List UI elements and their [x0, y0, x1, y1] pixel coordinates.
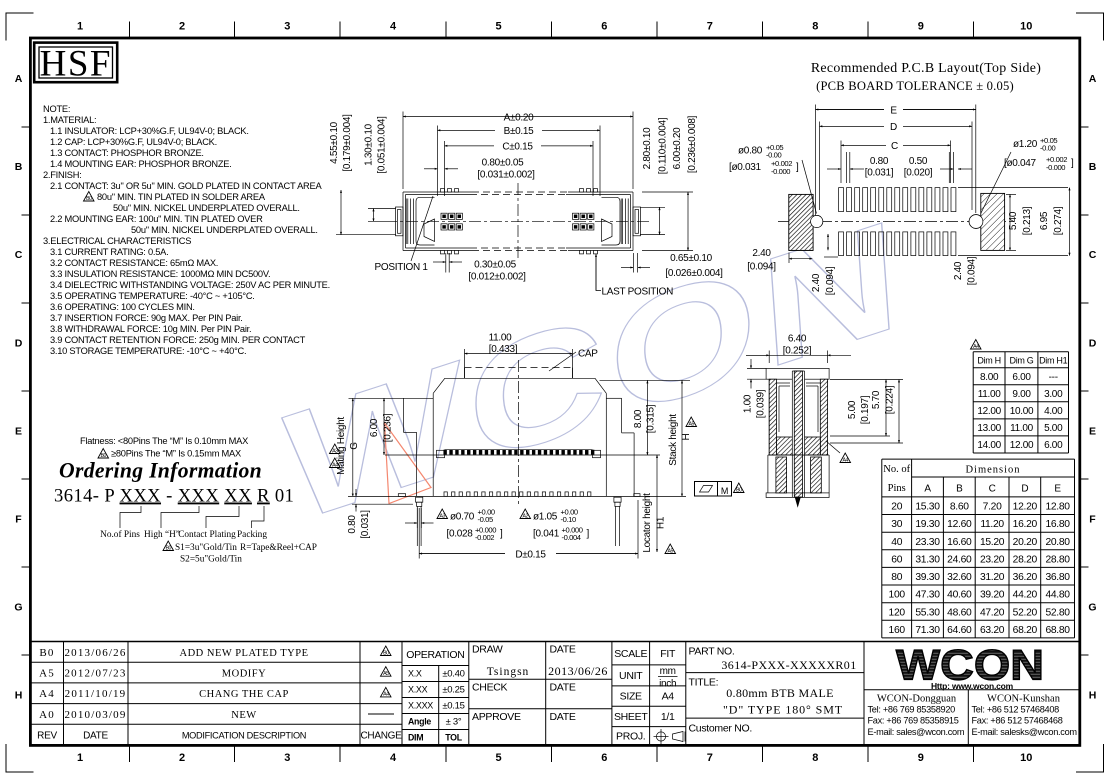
svg-text:Tel: +86 769 85358920: Tel: +86 769 85358920: [868, 705, 956, 715]
svg-text:A5: A5: [383, 671, 389, 677]
svg-text:Dim H1: Dim H1: [1039, 356, 1067, 366]
svg-text:B: B: [15, 161, 23, 173]
svg-text:B0: B0: [166, 545, 172, 551]
svg-text:6.00±0.20: 6.00±0.20: [672, 127, 683, 169]
svg-text:2.80±0.10: 2.80±0.10: [642, 127, 653, 169]
svg-text:PART NO.: PART NO.: [689, 646, 735, 658]
svg-text:2011/10/19: 2011/10/19: [65, 688, 127, 700]
svg-text:Tsingsn: Tsingsn: [487, 666, 530, 678]
svg-text:A4: A4: [662, 690, 675, 702]
svg-text:Angle: Angle: [408, 717, 431, 727]
svg-text:High “H”: High “H”: [144, 530, 180, 540]
svg-text:2.FINISH:: 2.FINISH:: [43, 170, 82, 180]
svg-text:A4: A4: [843, 457, 849, 463]
svg-text:2: 2: [179, 752, 185, 764]
svg-text:A3: A3: [440, 513, 446, 519]
svg-text:20.80: 20.80: [1045, 537, 1070, 548]
svg-text:Dim G: Dim G: [1010, 356, 1034, 366]
svg-text:11.20: 11.20: [980, 519, 1004, 530]
svg-text:3: 3: [284, 21, 290, 33]
svg-text:No. of: No. of: [883, 464, 910, 475]
svg-text:E-mail: salesks@wcon.com: E-mail: salesks@wcon.com: [972, 727, 1078, 737]
svg-text:31.30: 31.30: [915, 554, 940, 565]
svg-text:7: 7: [707, 21, 713, 33]
svg-text:32.60: 32.60: [947, 572, 972, 583]
svg-text:9.00: 9.00: [1012, 389, 1031, 400]
svg-text:[0.028: [0.028: [447, 529, 474, 540]
svg-text:[0.026±0.004]: [0.026±0.004]: [665, 268, 723, 279]
svg-text:MODIFY: MODIFY: [222, 669, 266, 680]
svg-text:D: D: [890, 122, 897, 133]
svg-text:ADD NEW PLATED TYPE: ADD NEW PLATED TYPE: [180, 648, 309, 659]
svg-text:[ø0.031: [ø0.031: [729, 162, 762, 173]
svg-text:5.00: 5.00: [1044, 423, 1063, 434]
svg-text:Recommended P.C.B Layout(Top S: Recommended P.C.B Layout(Top Side): [811, 61, 1041, 76]
svg-text:F: F: [15, 514, 22, 526]
svg-text:TOL: TOL: [445, 732, 462, 742]
svg-text:3614-PXXX-XXXXXR01: 3614-PXXX-XXXXXR01: [721, 658, 856, 672]
svg-text:2013/06/26: 2013/06/26: [64, 647, 126, 659]
svg-text:LAST POSITION: LAST POSITION: [602, 287, 674, 298]
svg-text:E: E: [15, 425, 22, 437]
svg-text:12.00: 12.00: [1010, 440, 1034, 451]
svg-text:WCON-Dongguan: WCON-Dongguan: [877, 694, 957, 705]
svg-text:B0: B0: [383, 650, 389, 656]
svg-text:[0.252]: [0.252]: [783, 345, 812, 356]
svg-text:H: H: [15, 690, 23, 702]
svg-text:3.8 WITHDRAWAL FORCE: 10g MIN: 3.8 WITHDRAWAL FORCE: 10g MIN. Per PIN P…: [50, 324, 251, 334]
svg-text:Fax: +86 512 57468468: Fax: +86 512 57468468: [972, 716, 1063, 726]
svg-text:23.20: 23.20: [980, 554, 1005, 565]
svg-text:80: 80: [891, 572, 902, 583]
svg-text:ø0.80: ø0.80: [738, 146, 763, 157]
svg-text:REV: REV: [37, 731, 57, 742]
svg-text:10.00: 10.00: [1010, 406, 1034, 417]
svg-text:-0.004: -0.004: [562, 533, 581, 542]
svg-text:20: 20: [891, 502, 902, 513]
svg-text:[0.179±0.004]: [0.179±0.004]: [342, 114, 353, 172]
svg-text:52.20: 52.20: [1013, 607, 1038, 618]
svg-text:A2: A2: [523, 513, 529, 519]
svg-text:1.1 INSULATOR: LCP+30%G.F, UL: 1.1 INSULATOR: LCP+30%G.F, UL94V-0; BLAC…: [50, 126, 249, 136]
svg-text:S1=3u"Gold/Tin: S1=3u"Gold/Tin: [175, 543, 237, 553]
svg-text:15.30: 15.30: [915, 502, 940, 513]
svg-text:A±0.20: A±0.20: [504, 112, 535, 123]
svg-text:[0.051±0.004]: [0.051±0.004]: [377, 116, 388, 174]
svg-text:1.3 CONTACT: PHOSPHOR BRONZE.: 1.3 CONTACT: PHOSPHOR BRONZE.: [50, 148, 204, 158]
svg-text:50u" MIN. NICKEL UNDERPLATED O: 50u" MIN. NICKEL UNDERPLATED OVERALL.: [113, 203, 300, 213]
svg-text:F: F: [1089, 514, 1096, 526]
svg-text:3.3 INSULATION RESISTANCE: 10: 3.3 INSULATION RESISTANCE: 1000MΩ MIN DC…: [50, 269, 270, 279]
svg-text:D±0.15: D±0.15: [515, 549, 546, 560]
svg-text:DATE: DATE: [550, 711, 576, 723]
svg-text:3.4 DIELECTRIC WITHSTANDING V: 3.4 DIELECTRIC WITHSTANDING VOLTAGE: 250…: [50, 280, 330, 290]
svg-text:±0.15: ±0.15: [442, 701, 464, 712]
svg-text:---: ---: [1049, 372, 1058, 383]
svg-text:[0.094]: [0.094]: [825, 266, 836, 295]
svg-text:[0.213]: [0.213]: [1022, 206, 1033, 235]
svg-text:7: 7: [707, 752, 713, 764]
svg-text:DRAW: DRAW: [472, 644, 503, 656]
svg-text:4: 4: [390, 752, 397, 764]
svg-text:11.00: 11.00: [489, 333, 513, 344]
svg-text:TITLE:: TITLE:: [689, 677, 719, 689]
svg-text:B: B: [956, 484, 963, 495]
svg-text:5.00: 5.00: [847, 400, 858, 419]
svg-text:Ordering Information: Ordering Information: [59, 459, 262, 483]
svg-text:A5: A5: [39, 668, 55, 680]
svg-text:DATE: DATE: [550, 644, 576, 656]
svg-text:±0.25: ±0.25: [442, 685, 464, 696]
svg-text:Http: www.wcon.com: Http: www.wcon.com: [931, 681, 1014, 691]
svg-text:MODIFICATION DESCRIPTION: MODIFICATION DESCRIPTION: [182, 731, 306, 741]
svg-text:≥80Pins The “M” Is 0.15mm: ≥80Pins The “M” Is 0.15mm MAX: [111, 449, 241, 459]
svg-text:3614- P XXX - XXX XX R 01: 3614- P XXX - XXX XX R 01: [54, 486, 294, 507]
svg-text:-0.002: -0.002: [475, 533, 494, 542]
svg-text:8: 8: [812, 21, 818, 33]
svg-text:[0.020]: [0.020]: [904, 168, 933, 179]
svg-text:16.20: 16.20: [1013, 519, 1038, 530]
svg-text:[0.236±0.008]: [0.236±0.008]: [687, 115, 698, 173]
svg-text:160: 160: [889, 625, 906, 636]
svg-text:3.5 OPERATING TEMPERATURE: -4: 3.5 OPERATING TEMPERATURE: -40°C ~ +105°…: [50, 291, 255, 301]
svg-text:[0.039]: [0.039]: [756, 389, 767, 418]
svg-text:6.95: 6.95: [1039, 211, 1050, 230]
svg-text:9: 9: [918, 21, 924, 33]
svg-text:C: C: [891, 141, 898, 152]
svg-text:H: H: [1089, 690, 1097, 702]
svg-text:2.1 CONTACT: 3u" OR 5u" MIN.: 2.1 CONTACT: 3u" OR 5u" MIN. GOLD PLATED…: [50, 181, 322, 191]
svg-text:X.X: X.X: [408, 669, 422, 679]
svg-text:[0.197]: [0.197]: [860, 395, 871, 424]
svg-text:6: 6: [601, 21, 607, 33]
svg-text:Locator height: Locator height: [642, 493, 653, 553]
svg-text:1.00: 1.00: [743, 394, 754, 413]
svg-text:5.40: 5.40: [1008, 211, 1019, 230]
svg-text:[0.110±0.004]: [0.110±0.004]: [657, 117, 668, 174]
svg-text:Tel: +86 512 57468408: Tel: +86 512 57468408: [972, 705, 1060, 715]
svg-text:1.2 CAP: LCP+30%G.F, UL94V-0;: 1.2 CAP: LCP+30%G.F, UL94V-0; BLACK.: [50, 137, 217, 147]
svg-text:9: 9: [918, 752, 924, 764]
svg-text:±0.40: ±0.40: [442, 669, 464, 680]
svg-text:[0.094]: [0.094]: [967, 256, 978, 285]
svg-text:23.30: 23.30: [915, 537, 940, 548]
svg-text:8.00: 8.00: [633, 409, 644, 428]
svg-text:8.60: 8.60: [950, 502, 969, 513]
svg-text:A4: A4: [973, 344, 979, 350]
svg-text:39.20: 39.20: [980, 590, 1005, 601]
svg-text:3.ELECTRICAL CHARACTERISTICS: 3.ELECTRICAL CHARACTERISTICS: [43, 236, 191, 246]
svg-text:"D" TYPE 180° SMT: "D" TYPE 180° SMT: [723, 703, 843, 717]
svg-text:G: G: [349, 442, 360, 450]
svg-text:M: M: [721, 486, 728, 496]
svg-text:CHECK: CHECK: [472, 682, 508, 694]
svg-text:B±0.15: B±0.15: [504, 126, 535, 137]
svg-text:-0.00: -0.00: [1040, 144, 1055, 153]
svg-text:36.80: 36.80: [1045, 572, 1070, 583]
svg-text:12.80: 12.80: [1045, 502, 1070, 513]
svg-text:31.20: 31.20: [980, 572, 1005, 583]
svg-text:44.80: 44.80: [1045, 590, 1070, 601]
svg-text:G: G: [1088, 602, 1096, 614]
svg-text:H1: H1: [656, 516, 667, 529]
svg-text:44.20: 44.20: [1013, 590, 1038, 601]
svg-text:± 3°: ± 3°: [446, 717, 462, 728]
svg-text:6.00: 6.00: [369, 418, 380, 437]
svg-text:[0.031]: [0.031]: [360, 510, 371, 539]
svg-text:11.00: 11.00: [978, 389, 1002, 400]
svg-text:3.9 CONTACT RETENTION FORCE:: 3.9 CONTACT RETENTION FORCE: 250g MIN. P…: [50, 335, 306, 345]
svg-text:S2=5u"Gold/Tin: S2=5u"Gold/Tin: [180, 555, 242, 565]
svg-text:5: 5: [495, 21, 501, 33]
svg-text:-0.05: -0.05: [478, 515, 493, 524]
svg-text:60: 60: [891, 554, 902, 565]
svg-text:WCON-Kunshan: WCON-Kunshan: [987, 694, 1061, 705]
svg-text:2.2 MOUNTING EAR: 100u" MIN.: 2.2 MOUNTING EAR: 100u" MIN. TIN PLATED …: [50, 214, 263, 224]
svg-text:[0.041: [0.041: [533, 529, 560, 540]
svg-text:5.70: 5.70: [871, 390, 882, 409]
svg-text:C: C: [1089, 249, 1097, 261]
svg-text:Dimension: Dimension: [965, 465, 1020, 476]
svg-text:3.2 CONTACT RESISTANCE: 65mΩ: 3.2 CONTACT RESISTANCE: 65mΩ MAX.: [50, 258, 218, 268]
svg-text:H: H: [681, 433, 692, 440]
svg-text:A: A: [15, 73, 23, 85]
svg-text:3: 3: [284, 752, 290, 764]
svg-text:[0.031]: [0.031]: [865, 168, 894, 179]
svg-text:15.20: 15.20: [980, 537, 1005, 548]
svg-text:B0: B0: [86, 196, 92, 202]
svg-text:POSITION 1: POSITION 1: [375, 262, 429, 273]
svg-text:68.20: 68.20: [1013, 625, 1038, 636]
svg-text:39.30: 39.30: [915, 572, 940, 583]
svg-text:2012/07/23: 2012/07/23: [64, 668, 126, 680]
svg-text:3.7 INSERTION FORCE: 90g MAX.: 3.7 INSERTION FORCE: 90g MAX. Per PIN Pa…: [50, 313, 243, 323]
svg-text:4: 4: [390, 21, 397, 33]
svg-text:DIM: DIM: [408, 732, 423, 742]
svg-text:[0.224]: [0.224]: [885, 385, 896, 414]
svg-text:E-mail: sales@wcon.com: E-mail: sales@wcon.com: [868, 727, 965, 737]
svg-text:68.80: 68.80: [1045, 625, 1070, 636]
svg-text:A: A: [924, 484, 931, 495]
svg-text:A0: A0: [39, 709, 55, 721]
svg-text:30: 30: [891, 519, 902, 530]
svg-text:-0.000: -0.000: [1046, 163, 1065, 172]
svg-text:[0.236]: [0.236]: [383, 413, 394, 442]
svg-text:28.20: 28.20: [1013, 554, 1038, 565]
svg-text:47.20: 47.20: [980, 607, 1005, 618]
svg-text:[0.433]: [0.433]: [489, 344, 518, 355]
svg-text:2010/03/09: 2010/03/09: [64, 709, 126, 721]
svg-text:71.30: 71.30: [915, 625, 940, 636]
svg-text:0.65±0.10: 0.65±0.10: [670, 253, 712, 264]
svg-text:63.20: 63.20: [980, 625, 1005, 636]
svg-text:E: E: [890, 105, 897, 116]
svg-text:55.30: 55.30: [915, 607, 940, 618]
svg-text:7.20: 7.20: [983, 502, 1002, 513]
svg-text:3.1 CURRENT RATING: 0.5A.: 3.1 CURRENT RATING: 0.5A.: [50, 247, 168, 257]
svg-text:2.40: 2.40: [811, 273, 822, 292]
svg-text:13.00: 13.00: [977, 423, 1001, 434]
svg-text:8.00: 8.00: [980, 372, 999, 383]
svg-text:24.60: 24.60: [947, 554, 972, 565]
svg-text:NEW: NEW: [231, 710, 256, 721]
svg-text:3.00: 3.00: [1044, 389, 1063, 400]
svg-text:A4: A4: [332, 462, 338, 468]
svg-text:6.40: 6.40: [788, 334, 807, 345]
svg-text:[0.315]: [0.315]: [646, 404, 657, 433]
svg-text:64.60: 64.60: [947, 625, 972, 636]
svg-text:0.80±0.05: 0.80±0.05: [482, 158, 524, 169]
svg-text:Flatness: <80Pins The “M”: Flatness: <80Pins The “M” Is 0.10mm MAX: [80, 436, 248, 446]
svg-text:E: E: [1089, 425, 1096, 437]
svg-text:B0: B0: [736, 487, 742, 493]
svg-text:2.40: 2.40: [953, 261, 964, 280]
svg-text:0.50: 0.50: [909, 156, 928, 167]
svg-text:47.30: 47.30: [915, 590, 940, 601]
svg-text:1: 1: [77, 21, 83, 33]
svg-text:Pins: Pins: [888, 483, 906, 494]
svg-text:Dim H: Dim H: [977, 356, 1001, 366]
svg-text:12.00: 12.00: [977, 406, 1001, 417]
svg-text:CHANGE: CHANGE: [361, 731, 403, 742]
svg-text:DATE: DATE: [83, 731, 108, 742]
svg-text:1.4 MOUNTING EAR: PHOSPHOR BR: 1.4 MOUNTING EAR: PHOSPHOR BRONZE.: [50, 159, 232, 169]
svg-text:D: D: [1089, 337, 1097, 349]
svg-text:[0.094]: [0.094]: [747, 262, 776, 273]
svg-text:(PCB BOARD TOLERANCE ± 0.05): (PCB BOARD TOLERANCE ± 0.05): [816, 79, 1014, 93]
svg-text:E: E: [1054, 484, 1061, 495]
svg-text:12.20: 12.20: [1013, 502, 1038, 513]
svg-text:A4: A4: [39, 688, 55, 700]
svg-text:PROJ.: PROJ.: [616, 730, 645, 742]
svg-text:[0.274]: [0.274]: [1053, 206, 1064, 235]
svg-text:DATE: DATE: [550, 682, 576, 694]
svg-text:mm: mm: [660, 666, 676, 677]
svg-text:Stack height: Stack height: [668, 414, 679, 466]
svg-text:52.80: 52.80: [1045, 607, 1070, 618]
svg-text:D: D: [1021, 484, 1028, 495]
svg-text:A5: A5: [668, 548, 674, 554]
svg-text:A4: A4: [383, 692, 389, 698]
svg-text:20.20: 20.20: [1013, 537, 1038, 548]
svg-text:-0.10: -0.10: [561, 515, 576, 524]
svg-text:3.6 OPERATING: 100 CYCLES MIN: 3.6 OPERATING: 100 CYCLES MIN.: [50, 302, 195, 312]
svg-text:B: B: [1089, 161, 1097, 173]
svg-text:0.80: 0.80: [347, 515, 358, 534]
svg-text:Customer NO.: Customer NO.: [689, 723, 753, 735]
svg-text:0.80: 0.80: [870, 156, 889, 167]
svg-text:2013/06/26: 2013/06/26: [548, 664, 608, 678]
svg-text:10: 10: [1020, 752, 1032, 764]
svg-text:X.XX: X.XX: [408, 685, 428, 695]
svg-text:ø0.70: ø0.70: [450, 512, 475, 523]
svg-text:28.80: 28.80: [1045, 554, 1070, 565]
svg-text:Fax: +86 769 85358915: Fax: +86 769 85358915: [868, 716, 959, 726]
svg-text:36.20: 36.20: [1013, 572, 1038, 583]
svg-text:R=Tape&Reel+CAP: R=Tape&Reel+CAP: [240, 543, 317, 553]
svg-text:X.XXX: X.XXX: [408, 701, 433, 711]
svg-text:16.60: 16.60: [947, 537, 972, 548]
svg-text:40: 40: [891, 537, 902, 548]
svg-text:SIZE: SIZE: [620, 690, 642, 702]
svg-text:No.of Pins: No.of Pins: [100, 529, 140, 540]
svg-text:C±0.15: C±0.15: [502, 142, 533, 153]
svg-text:FIT: FIT: [660, 648, 676, 660]
svg-text:6.00: 6.00: [1012, 372, 1031, 383]
svg-text:1: 1: [77, 752, 83, 764]
svg-text:HSF: HSF: [40, 44, 112, 85]
svg-text:CHANG THE CAP: CHANG THE CAP: [199, 689, 289, 700]
svg-text:[0.031±0.002]: [0.031±0.002]: [477, 169, 535, 180]
svg-text:SCALE: SCALE: [614, 648, 647, 660]
svg-text:APPROVE: APPROVE: [472, 711, 521, 723]
svg-text:B0: B0: [39, 647, 54, 659]
svg-text:A5: A5: [689, 421, 695, 427]
svg-text:8: 8: [812, 752, 818, 764]
svg-text:ø1.20: ø1.20: [1013, 139, 1038, 150]
svg-text:0.80mm BTB MALE: 0.80mm BTB MALE: [726, 686, 834, 700]
svg-text:2.40: 2.40: [752, 248, 771, 259]
svg-text:19.30: 19.30: [915, 519, 940, 530]
svg-text:NOTE:: NOTE:: [43, 104, 70, 114]
svg-text:ø1.05: ø1.05: [533, 512, 558, 523]
svg-text:6.00: 6.00: [1044, 440, 1063, 451]
svg-text:10: 10: [1020, 21, 1032, 33]
svg-text:3.10 STORAGE TEMPERATURE: -10: 3.10 STORAGE TEMPERATURE: -10°C ~ +40°C.: [50, 346, 246, 356]
svg-text:CAP: CAP: [578, 349, 598, 360]
svg-text:A3: A3: [332, 448, 338, 454]
svg-text:UNIT: UNIT: [619, 670, 643, 682]
svg-text:14.00: 14.00: [977, 440, 1001, 451]
svg-text:40.60: 40.60: [947, 590, 972, 601]
svg-text:D: D: [15, 337, 23, 349]
svg-text:120: 120: [889, 607, 906, 618]
svg-text:inch: inch: [659, 679, 676, 690]
svg-text:16.80: 16.80: [1045, 519, 1070, 530]
svg-text:11.00: 11.00: [1010, 423, 1034, 434]
svg-text:5: 5: [495, 752, 501, 764]
svg-text:1.30±0.10: 1.30±0.10: [364, 123, 375, 165]
svg-text:G: G: [14, 602, 22, 614]
svg-text:1.MATERIAL:: 1.MATERIAL:: [43, 115, 96, 125]
svg-text:Contact Plating: Contact Plating: [178, 530, 236, 540]
svg-text:C: C: [15, 249, 23, 261]
svg-text:4.55±0.10: 4.55±0.10: [329, 121, 340, 163]
svg-text:SHEET: SHEET: [614, 711, 648, 723]
svg-text:A: A: [1089, 73, 1097, 85]
svg-text:[ø0.047: [ø0.047: [1004, 158, 1037, 169]
svg-text:6: 6: [601, 752, 607, 764]
svg-text:Packing: Packing: [237, 530, 267, 540]
svg-text:80u" MIN. TIN PLATED IN SOLDER: 80u" MIN. TIN PLATED IN SOLDER AREA: [97, 192, 266, 202]
svg-text:[0.012±0.002]: [0.012±0.002]: [468, 271, 526, 282]
svg-text:12.60: 12.60: [947, 519, 972, 530]
svg-text:1/1: 1/1: [661, 711, 675, 723]
svg-text:C: C: [989, 484, 996, 495]
svg-text:-0.000: -0.000: [771, 167, 790, 176]
svg-text:OPERATION: OPERATION: [406, 649, 464, 661]
svg-text:100: 100: [889, 590, 906, 601]
svg-text:50u" MIN. NICKEL UNDERPLATED O: 50u" MIN. NICKEL UNDERPLATED OVERALL.: [131, 225, 318, 235]
svg-text:4.00: 4.00: [1044, 406, 1063, 417]
svg-text:0.30±0.05: 0.30±0.05: [474, 260, 516, 271]
svg-text:2: 2: [179, 21, 185, 33]
svg-text:48.60: 48.60: [947, 607, 972, 618]
